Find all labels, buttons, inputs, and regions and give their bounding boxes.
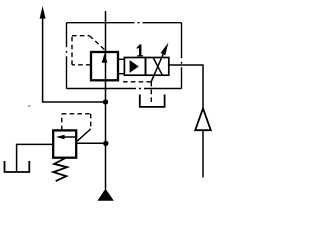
speck [28,105,30,107]
pilot line (dashed) around main valve V1 [72,36,105,65]
pilot valve box (proportional, crossed) [146,58,169,76]
drain line (dashed) from pilot valve [123,82,151,105]
pin label 1 [137,44,143,56]
wire: inlet pressure line with arrow (left) [40,6,106,102]
pilot relief valve V2 body [53,130,76,157]
wire: V2 inlet from main line [76,142,105,144]
spring of V2 [53,158,67,181]
flow direction arrow (open triangle, right line) [195,108,211,130]
wire: V2 drain to tank T1 [17,144,54,171]
wire: stubs valve V1 to solenoid [118,59,124,73]
main valve V1 body [91,52,118,80]
adjustment arrow (diagonal) [151,43,168,82]
tank symbol T2 (under enclosure) [140,95,165,107]
node J2 junction dot [103,141,108,146]
wire: output line to right [169,65,203,178]
solenoid triangle (filled) [130,60,139,73]
tank symbol T1 (left) [5,161,30,172]
main valve V1 flow arrow (up) [102,53,108,63]
pilot line (dashed) over V2 [62,114,91,130]
cross diagonal in pilot box [153,58,162,75]
pilot tap diagonal at V2 [77,129,91,141]
pilot relief valve V2 flow arrow (left) [56,135,75,140]
node J1 junction dot [103,99,108,104]
tank symbol (filled triangle, bottom) [97,189,113,201]
enclosure (cartridge assembly boundary, chain line) [67,23,182,89]
wire: main vertical line P [105,11,107,189]
solenoid box [124,58,145,76]
